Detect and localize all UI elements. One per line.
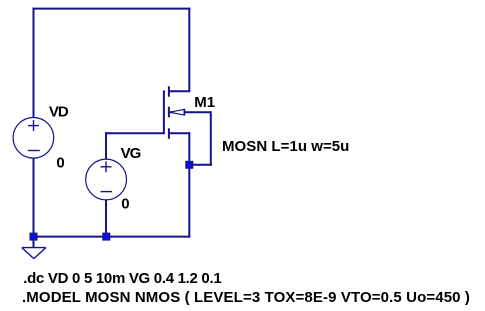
wire body branch horizontal <box>188 164 212 166</box>
wire ground stub <box>33 237 35 248</box>
ground <box>22 248 46 259</box>
wire right vertical upper <box>188 8 190 92</box>
wire VG top vertical <box>105 132 107 159</box>
svg-text:.dc VD 0 5 10m VG 0.4 1.2 0.1: .dc VD 0 5 10m VG 0.4 1.2 0.1 <box>23 270 221 287</box>
wire source vertical <box>188 132 190 237</box>
svg-text:VG: VG <box>121 145 141 162</box>
source bar <box>168 128 170 139</box>
node junction VG <box>103 233 110 240</box>
transistor M1 <box>164 86 211 139</box>
wire VG bottom vertical <box>105 200 107 238</box>
body bar <box>168 107 170 118</box>
svg-text:M1: M1 <box>194 94 215 111</box>
drain bar <box>168 86 170 96</box>
node junction source/body <box>186 161 193 168</box>
wire left vertical lower <box>33 158 35 238</box>
node junction left <box>30 233 37 240</box>
svg-text:0: 0 <box>56 154 64 171</box>
drain lead <box>169 90 190 92</box>
svg-text:MOSN L=1u w=5u: MOSN L=1u w=5u <box>222 138 349 155</box>
svg-text:VD: VD <box>49 104 69 121</box>
voltage source VG <box>86 159 127 200</box>
wire top horizontal <box>33 8 191 10</box>
gate line <box>163 90 165 134</box>
svg-text:.MODEL MOSN NMOS ( LEVEL=3 TOX: .MODEL MOSN NMOS ( LEVEL=3 TOX=8E-9 VTO=… <box>22 289 470 306</box>
voltage source VD <box>13 118 54 159</box>
body lead <box>169 111 211 113</box>
svg-text:0: 0 <box>121 196 129 213</box>
wire gate lead <box>105 132 164 134</box>
source lead <box>169 132 190 134</box>
wire body branch vertical <box>210 111 212 166</box>
wire left vertical upper <box>33 8 35 118</box>
wire bottom horizontal <box>33 236 191 238</box>
body arrow <box>170 109 185 115</box>
